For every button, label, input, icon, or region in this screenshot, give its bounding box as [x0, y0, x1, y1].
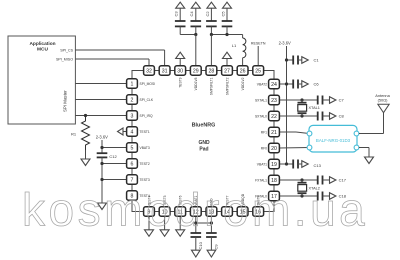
- svg-text:TEST1: TEST1: [140, 130, 150, 134]
- svg-text:(50Ω): (50Ω): [378, 97, 389, 102]
- svg-text:SPI_MOSI: SPI_MOSI: [140, 82, 156, 86]
- svg-text:SMPSFILT1: SMPSFILT1: [210, 77, 214, 95]
- svg-text:TEST3: TEST3: [140, 178, 150, 182]
- svg-text:C2: C2: [205, 11, 210, 17]
- svg-text:SPI_MISO: SPI_MISO: [56, 57, 73, 61]
- svg-text:C3: C3: [174, 11, 179, 17]
- svg-text:C5: C5: [220, 11, 225, 17]
- svg-text:C6: C6: [314, 82, 320, 87]
- svg-text:6: 6: [131, 161, 134, 167]
- svg-text:TEST9: TEST9: [179, 77, 183, 87]
- svg-text:VBAT1: VBAT1: [257, 162, 267, 166]
- svg-text:C13: C13: [314, 163, 322, 168]
- svg-text:2-3.6V: 2-3.6V: [96, 134, 108, 139]
- svg-text:L1: L1: [232, 43, 237, 48]
- svg-text:GND: GND: [198, 140, 210, 146]
- svg-text:20: 20: [271, 146, 277, 152]
- svg-text:SXTAL1: SXTAL1: [255, 98, 267, 102]
- svg-text:C8: C8: [339, 114, 345, 119]
- svg-text:25: 25: [255, 68, 261, 74]
- svg-text:RF0: RF0: [261, 146, 267, 150]
- svg-text:C12: C12: [109, 154, 117, 159]
- svg-text:24: 24: [271, 82, 277, 88]
- svg-text:4: 4: [131, 129, 134, 135]
- svg-text:32: 32: [146, 68, 152, 74]
- svg-text:RESETN: RESETN: [251, 42, 266, 46]
- svg-text:Application: Application: [29, 41, 55, 47]
- svg-text:VBAT2: VBAT2: [257, 82, 267, 86]
- svg-text:30: 30: [177, 68, 183, 74]
- svg-text:TEST2: TEST2: [140, 162, 150, 166]
- svg-text:MCU: MCU: [37, 47, 48, 53]
- svg-text:23: 23: [271, 98, 277, 104]
- svg-text:2: 2: [131, 97, 134, 103]
- svg-text:RF1: RF1: [261, 130, 267, 134]
- svg-text:kosmodrom.ua: kosmodrom.ua: [22, 184, 368, 236]
- svg-text:VBAT3: VBAT3: [140, 146, 150, 150]
- svg-text:C1: C1: [314, 58, 320, 63]
- svg-text:2-3.6V: 2-3.6V: [279, 41, 291, 46]
- svg-text:SMPSFILT2: SMPSFILT2: [225, 77, 229, 95]
- svg-text:C4: C4: [189, 11, 194, 17]
- svg-text:Pad: Pad: [199, 147, 208, 153]
- svg-text:3: 3: [131, 113, 134, 119]
- svg-text:19: 19: [271, 162, 277, 168]
- svg-text:31: 31: [162, 68, 168, 74]
- svg-text:7: 7: [131, 177, 134, 183]
- svg-text:1: 1: [131, 81, 134, 87]
- svg-text:R1: R1: [71, 132, 77, 137]
- svg-text:C10: C10: [198, 241, 203, 249]
- svg-text:29: 29: [193, 68, 199, 74]
- svg-text:VDD1V8: VDD1V8: [194, 77, 198, 90]
- svg-text:BALF-NRG-01D3: BALF-NRG-01D3: [316, 138, 351, 143]
- svg-text:SXTAL0: SXTAL0: [255, 114, 267, 118]
- svg-text:26: 26: [240, 68, 246, 74]
- svg-text:22: 22: [271, 114, 277, 120]
- svg-text:SPI_IRQ: SPI_IRQ: [140, 114, 153, 118]
- svg-text:5: 5: [131, 145, 134, 151]
- svg-text:SPI_CLK: SPI_CLK: [140, 98, 154, 102]
- svg-text:C17: C17: [339, 178, 347, 183]
- svg-text:SPI Master: SPI Master: [63, 90, 68, 112]
- svg-text:VDD1V2: VDD1V2: [241, 77, 245, 90]
- svg-text:SPI_CS: SPI_CS: [60, 48, 73, 52]
- svg-text:28: 28: [209, 68, 215, 74]
- svg-text:BlueNRG: BlueNRG: [192, 123, 216, 129]
- svg-text:XTAL1: XTAL1: [309, 106, 320, 110]
- svg-text:C9: C9: [214, 244, 219, 250]
- svg-text:27: 27: [224, 68, 230, 74]
- svg-text:21: 21: [271, 130, 277, 136]
- svg-text:FXTAL1: FXTAL1: [255, 178, 267, 182]
- svg-text:C7: C7: [339, 98, 345, 103]
